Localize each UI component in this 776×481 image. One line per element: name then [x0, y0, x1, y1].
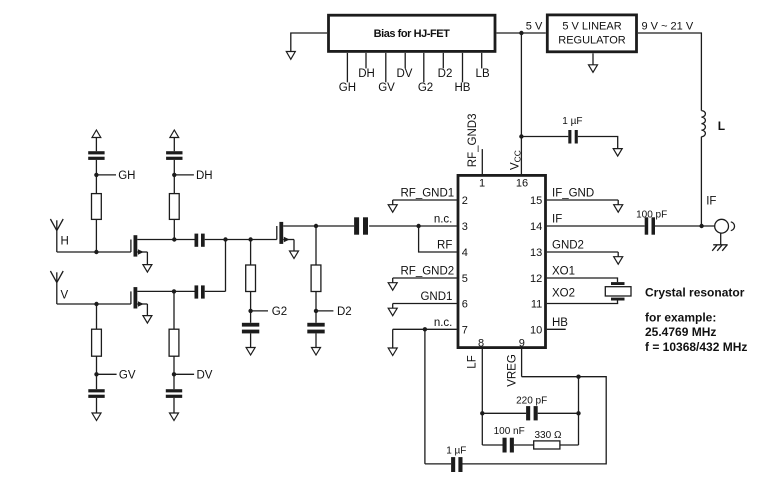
bias stub HB — [455, 53, 471, 94]
svg-text:12: 12 — [530, 273, 542, 285]
wire G2 rail — [250, 240, 252, 266]
svg-text:14: 14 — [530, 221, 542, 233]
wire GV cap to ground — [96, 398, 98, 413]
wire 220 pF row — [482, 412, 526, 414]
pin 13 GND2 — [530, 240, 618, 260]
svg-text:REGULATOR: REGULATOR — [558, 34, 625, 46]
pin 5 RF_GND2 — [393, 266, 468, 286]
node GH rail junction — [94, 250, 98, 254]
svg-text:25.4769 MHz: 25.4769 MHz — [645, 325, 716, 339]
resistor 330 ohm — [534, 430, 562, 449]
pin 12 XO1 — [530, 266, 617, 286]
up arrow rail GH — [92, 130, 101, 138]
wire 5 V node down to VCC pin 16 — [520, 33, 522, 174]
node VCC decoupling junction — [519, 134, 523, 138]
wire G2 cap to ground — [250, 333, 252, 347]
node combiner H — [223, 237, 227, 241]
pin 2 RF_GND1 — [393, 188, 468, 208]
ground (G2) — [246, 348, 255, 356]
svg-text:RF_GND2: RF_GND2 — [401, 266, 455, 278]
wire DH rail top — [173, 138, 175, 152]
ground (Q2 source) — [143, 316, 152, 324]
wire Q2 drain to coupling cap — [174, 290, 195, 292]
capacitor (DH bypass) — [166, 151, 182, 160]
svg-text:IF_GND: IF_GND — [552, 188, 594, 200]
capacitor 1 uF (VREG) — [446, 445, 466, 472]
ground (pin 6) — [388, 308, 397, 316]
wire 220 pF to branch — [538, 412, 579, 414]
bias stub G2 — [418, 53, 433, 94]
transistor Q1 HJ-FET (H) — [131, 235, 174, 264]
wire bias box to regulator — [497, 32, 546, 34]
connector IF output — [715, 219, 735, 245]
crystal resonator X1 — [605, 282, 631, 300]
ground (pin 5) — [388, 283, 397, 291]
bias stub D2 — [438, 53, 453, 80]
wire regulator output to inductor — [638, 33, 701, 111]
wire G2 resistor to cap — [250, 292, 252, 323]
ground (below regulator) — [589, 65, 598, 73]
capacitor (H coupling) — [195, 234, 205, 247]
svg-text:9 V ~ 21 V: 9 V ~ 21 V — [642, 20, 694, 32]
bias stub LB — [476, 53, 490, 80]
node D2 rail junction — [314, 224, 318, 228]
svg-text:11: 11 — [531, 299, 542, 311]
text crystal resonator note — [645, 285, 747, 354]
svg-text:5 V: 5 V — [526, 20, 543, 32]
svg-text:L: L — [718, 119, 725, 133]
ground (GV) — [92, 413, 101, 421]
svg-text:D2: D2 — [438, 68, 453, 80]
node DV drain junction — [172, 289, 176, 293]
svg-text:15: 15 — [530, 195, 542, 207]
bias stub GV — [378, 53, 395, 94]
svg-text:6: 6 — [462, 299, 468, 311]
resistor DH — [169, 194, 179, 220]
svg-text:XO1: XO1 — [552, 266, 575, 278]
resistor D2 — [311, 265, 321, 292]
resistor GV — [92, 329, 102, 356]
node G2 rail junction — [248, 237, 252, 241]
resistor G2 — [246, 265, 256, 292]
wire Q1 drain to coupling cap — [174, 239, 194, 241]
wire GV resistor to cap — [96, 356, 98, 389]
wire antenna V to FET3 gate — [57, 303, 131, 305]
ground (pin 2) — [388, 205, 397, 213]
svg-text:8: 8 — [478, 338, 484, 350]
capacitor (DV bypass) — [166, 389, 182, 398]
capacitor (RF coupling) — [354, 217, 368, 234]
wire LF vertical lower — [481, 413, 483, 445]
svg-text:DH: DH — [196, 170, 213, 182]
svg-text:V: V — [61, 289, 69, 301]
node GV label tick — [94, 369, 136, 381]
node DH label tick — [172, 170, 213, 182]
wire pin 7 node down — [424, 329, 426, 464]
capacitor C 1 uF (VCC decoupling) — [562, 116, 582, 143]
antenna H — [50, 219, 68, 252]
pin 16 VCC — [510, 150, 529, 190]
wire D2 cap to ground — [315, 333, 317, 347]
inductor L — [701, 111, 725, 137]
capacitor (D2 bypass) — [307, 323, 324, 334]
pin 4 RF — [419, 226, 468, 259]
capacitor (G2 bypass) — [242, 323, 259, 334]
svg-text:1: 1 — [479, 178, 485, 190]
svg-text:H: H — [61, 236, 69, 248]
resistor DV — [169, 329, 179, 356]
svg-text:2: 2 — [462, 195, 468, 207]
capacitor (GH bypass) — [88, 151, 104, 160]
svg-text:HB: HB — [552, 317, 568, 329]
wire 100 nF to 330 ohm — [514, 444, 534, 446]
ground (pin 13) — [614, 257, 623, 265]
svg-text:for example:: for example: — [645, 311, 716, 325]
wire 100 pF to IF connector — [655, 225, 715, 227]
up arrow rail DH — [170, 130, 179, 138]
capacitor (V coupling) — [195, 285, 205, 298]
svg-text:Crystal resonator: Crystal resonator — [645, 285, 745, 299]
chassis ground (IF connector) — [712, 245, 728, 251]
ground (Q1 source) — [143, 265, 152, 273]
svg-text:VREG: VREG — [507, 354, 519, 387]
svg-text:RF: RF — [437, 240, 452, 252]
node IF — [699, 196, 716, 229]
svg-text:GV: GV — [119, 369, 136, 381]
ground (DV) — [170, 413, 179, 421]
capacitor 100 nF — [494, 426, 525, 452]
pin 1 RF_GND3 — [467, 114, 485, 190]
svg-text:1 µF: 1 µF — [562, 116, 582, 127]
pin 11 XO2 — [531, 288, 618, 311]
wire inductor to IF line — [700, 137, 702, 226]
svg-text:13: 13 — [530, 247, 542, 259]
svg-text:100 pF: 100 pF — [636, 209, 667, 220]
ground (D2) — [312, 348, 321, 356]
pin 9 VREG — [507, 338, 525, 387]
svg-text:9: 9 — [519, 338, 525, 350]
svg-text:100 nF: 100 nF — [494, 426, 525, 437]
svg-text:Bias for HJ-FET: Bias for HJ-FET — [374, 28, 450, 40]
bias stub DH — [358, 53, 375, 80]
antenna V — [50, 271, 68, 304]
node DH drain junction — [172, 237, 176, 241]
wire DV resistor to cap — [173, 356, 175, 389]
svg-text:RF_GND1: RF_GND1 — [401, 188, 455, 200]
svg-text:330 Ω: 330 Ω — [535, 430, 562, 441]
wire GH resistor to gate wire — [95, 219, 97, 252]
svg-text:GV: GV — [378, 82, 395, 94]
pin 10 HB — [530, 317, 568, 337]
svg-text:n.c.: n.c. — [434, 214, 453, 226]
wire GH cap to resistor — [95, 160, 97, 194]
svg-text:4: 4 — [462, 247, 468, 259]
wire DV cap to ground — [173, 398, 175, 413]
svg-text:HB: HB — [455, 82, 471, 94]
svg-text:1 µF: 1 µF — [446, 445, 466, 456]
wire D2 rail — [315, 226, 317, 265]
wire antenna H to FET1 gate — [57, 251, 131, 253]
node LF 220 pF — [480, 411, 484, 415]
svg-text:GND2: GND2 — [552, 240, 584, 252]
op-amp U1 IC body — [458, 175, 546, 347]
ground (pin 15) — [614, 205, 623, 213]
wire DV rail — [173, 291, 175, 329]
svg-text:220 pF: 220 pF — [516, 395, 547, 406]
svg-text:LF: LF — [467, 355, 479, 368]
transistor Q3 HJ-FET (2nd stage) — [277, 222, 354, 251]
block 5 V linear regulator — [547, 15, 636, 52]
wire DH cap to resistor — [173, 160, 175, 194]
svg-text:G2: G2 — [272, 306, 287, 318]
svg-text:f = 10368/432 MHz: f = 10368/432 MHz — [645, 340, 747, 354]
svg-text:RF_GND3: RF_GND3 — [467, 114, 479, 168]
wire bottom row to 1 uF — [425, 463, 451, 465]
wire combiner vertical — [225, 240, 227, 292]
wire VCC to 1 uF capacitor — [521, 136, 568, 138]
wire D2 resistor to cap — [315, 292, 317, 323]
block Bias for HJ-FET — [329, 15, 496, 51]
svg-text:DV: DV — [197, 369, 213, 381]
svg-text:GH: GH — [118, 170, 135, 182]
pin 14 IF — [530, 214, 645, 234]
node G2 label tick — [248, 306, 287, 318]
svg-text:10: 10 — [530, 325, 542, 337]
wire 100 nF row left — [482, 444, 502, 446]
wire H coupling cap to combiner — [205, 239, 226, 241]
svg-text:5: 5 — [462, 273, 468, 285]
wire GV rail — [96, 304, 98, 329]
svg-text:7: 7 — [462, 325, 468, 337]
svg-text:LB: LB — [476, 68, 490, 80]
node DV label tick — [172, 369, 213, 381]
svg-text:IF: IF — [552, 214, 562, 226]
node 5 V — [519, 20, 543, 35]
capacitor 100 pF — [636, 209, 667, 234]
wire GH rail top — [95, 138, 97, 152]
svg-text:16: 16 — [516, 178, 528, 190]
wire bottom row right — [463, 377, 607, 464]
svg-text:GH: GH — [339, 82, 356, 94]
capacitor 220 pF — [516, 395, 547, 420]
transistor Q2 HJ-FET (V) — [131, 287, 174, 316]
svg-text:n.c.: n.c. — [434, 317, 453, 329]
node VREG branch — [576, 375, 580, 379]
wire 330 ohm to branch — [560, 444, 579, 446]
svg-text:GND1: GND1 — [420, 291, 452, 303]
svg-text:G2: G2 — [418, 82, 433, 94]
pin 8 LF — [467, 338, 485, 414]
wire 1 uF capacitor to ground — [578, 137, 618, 149]
svg-text:5 V LINEAR: 5 V LINEAR — [562, 20, 621, 32]
node 220 pF branch — [576, 411, 580, 415]
capacitor (GV bypass) — [88, 389, 104, 398]
svg-text:3: 3 — [462, 221, 468, 233]
wire regulator to ground — [592, 53, 594, 65]
wire V coupling cap to combiner — [205, 290, 226, 292]
ground (1 uF VCC) — [613, 149, 622, 157]
node D2 label tick — [314, 306, 352, 318]
bias stub GH — [339, 53, 356, 94]
wire combiner to FET2 gate — [226, 239, 277, 241]
resistor GH — [92, 194, 102, 220]
svg-text:D2: D2 — [337, 306, 352, 318]
wire bias box left to ground — [291, 33, 327, 52]
ground (left of bias box) — [286, 52, 295, 60]
wire DH resistor to drain — [173, 219, 175, 239]
svg-text:XO2: XO2 — [552, 288, 575, 300]
ground (Q3 source) — [290, 251, 299, 259]
bias stub DV — [397, 53, 413, 80]
node GH label tick — [94, 170, 135, 182]
svg-text:DV: DV — [397, 68, 413, 80]
svg-text:DH: DH — [358, 68, 375, 80]
pin 3 n.c. with RF input node — [369, 214, 468, 234]
node GV rail junction — [94, 302, 98, 306]
pin 6 GND1 — [393, 291, 468, 311]
ground (pin 7) — [388, 348, 397, 356]
pin 15 IF_GND — [530, 188, 618, 208]
wire VREG branch vertical — [578, 377, 580, 445]
svg-text:IF: IF — [706, 196, 716, 208]
pin 7 n.c. — [393, 317, 468, 348]
